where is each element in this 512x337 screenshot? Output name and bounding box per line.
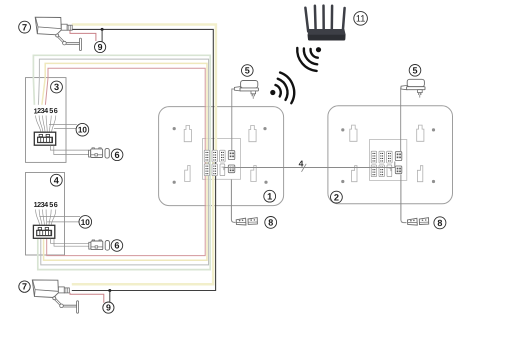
box 3 label circle 6 <box>111 149 123 161</box>
svg-text:6: 6 <box>115 150 120 160</box>
label circle 8 left <box>265 217 277 229</box>
svg-text:10: 10 <box>81 218 91 227</box>
label circle 9 bottom <box>103 302 114 313</box>
box 4 label circle 10 <box>79 216 92 229</box>
junction dot bottom <box>108 289 111 292</box>
box 4 mini camera 6 <box>89 240 110 250</box>
svg-text:4: 4 <box>44 200 48 209</box>
monitor 1 label circle 1 <box>264 190 276 202</box>
svg-text:4: 4 <box>299 159 304 169</box>
monitor 1 terminal block frame <box>203 139 241 180</box>
monitor 2 body <box>328 106 453 204</box>
box 3 wire numbers 1-6 <box>34 106 58 115</box>
monitor 1 keyholes <box>184 126 191 142</box>
router 11 antennas <box>305 6 344 32</box>
box 4 label circle 6 <box>111 240 123 252</box>
label circle 5 left <box>242 65 254 77</box>
box 3 wire fan <box>36 116 56 132</box>
svg-text:4: 4 <box>44 106 48 115</box>
junction dot top <box>101 28 104 31</box>
bullet camera 7 bottom <box>32 280 78 313</box>
svg-text:4: 4 <box>54 175 60 185</box>
box 3 terminal connector 10 <box>34 132 55 145</box>
svg-text:6: 6 <box>54 200 58 209</box>
outdoor station box 4 <box>26 173 65 256</box>
box 4 wire numbers 1-6 <box>34 200 58 209</box>
plugs 8 right <box>408 218 429 225</box>
wifi signal lower-left <box>270 73 294 104</box>
monitor 2 pin headers <box>371 151 402 177</box>
interconnect line 4 <box>224 162 395 168</box>
monitor 1 screw holes <box>173 127 268 184</box>
svg-text:10: 10 <box>78 126 88 135</box>
monitor 2 keyholes <box>350 125 357 141</box>
svg-text:11: 11 <box>356 14 366 24</box>
svg-text:7: 7 <box>22 22 27 32</box>
leader to circle 9 bottom <box>109 291 111 303</box>
svg-text:7: 7 <box>22 282 27 292</box>
svg-text:2: 2 <box>334 192 339 202</box>
label circle 5 right <box>409 65 421 77</box>
wire green loop box3-monitor1-box4 <box>33 55 210 269</box>
camera 7 top red wire <box>70 30 96 41</box>
wire yellow loop <box>42 63 207 260</box>
box 4 terminal connector 10 <box>33 225 54 238</box>
svg-text:3: 3 <box>54 82 59 92</box>
wire white/gray loop <box>38 59 208 265</box>
camera cable yellow loop <box>72 25 216 285</box>
svg-text:8: 8 <box>268 218 273 228</box>
label circle 11 <box>354 12 368 26</box>
svg-text:9: 9 <box>98 42 103 52</box>
leader to circle 9 top <box>101 29 103 42</box>
outdoor station box 3 <box>26 78 67 163</box>
camera cable black loop <box>72 29 216 290</box>
camera 7 bottom red wire <box>70 293 104 303</box>
box 4 wires to mini camera <box>51 239 89 247</box>
label circle 7 bottom <box>19 281 30 292</box>
monitor 2 label circle 2 <box>331 191 343 203</box>
power adapter 5 left wire <box>232 89 235 151</box>
svg-text:8: 8 <box>437 218 442 228</box>
box 3 wires to mini camera <box>50 146 88 155</box>
svg-text:1: 1 <box>267 191 272 201</box>
monitor 2 screw holes <box>341 128 435 183</box>
label circle 9 top <box>95 41 106 52</box>
svg-text:5: 5 <box>49 200 53 209</box>
label 4 slash <box>302 164 307 172</box>
box 4 label circle <box>50 174 62 186</box>
monitor 1 drop to plugs 8 <box>231 180 235 223</box>
plugs 8 left <box>236 218 257 225</box>
svg-text:5: 5 <box>412 65 417 75</box>
box 3 label circle 10 <box>76 123 89 136</box>
box 3 leader lines to circle 10 <box>49 124 77 128</box>
box 3 mini camera 6 <box>89 148 110 158</box>
router 11 body <box>308 29 346 41</box>
svg-text:5: 5 <box>49 106 53 115</box>
wifi signal upper-right <box>297 47 321 71</box>
wire red loop <box>45 68 205 255</box>
box 4 wire fan <box>36 210 56 225</box>
box 4 leader lines to circle 10 <box>39 217 80 222</box>
label circle 7 top <box>19 21 31 33</box>
box 3 label circle <box>51 81 63 93</box>
power adapter 5 right wire <box>400 88 403 151</box>
svg-text:5: 5 <box>245 66 250 76</box>
monitor 2 drop to plugs 8 <box>401 175 407 223</box>
bullet camera 7 top <box>35 17 81 50</box>
monitor 2 terminal block frame <box>370 140 407 181</box>
label circle 8 right <box>434 217 446 229</box>
monitor 1 pin headers <box>204 150 235 176</box>
svg-text:9: 9 <box>106 303 111 313</box>
power adapter 5 left <box>234 81 258 99</box>
svg-text:6: 6 <box>54 106 58 115</box>
monitor 1 body <box>159 107 284 206</box>
svg-text:6: 6 <box>114 241 119 251</box>
power adapter 5 right <box>401 79 425 97</box>
